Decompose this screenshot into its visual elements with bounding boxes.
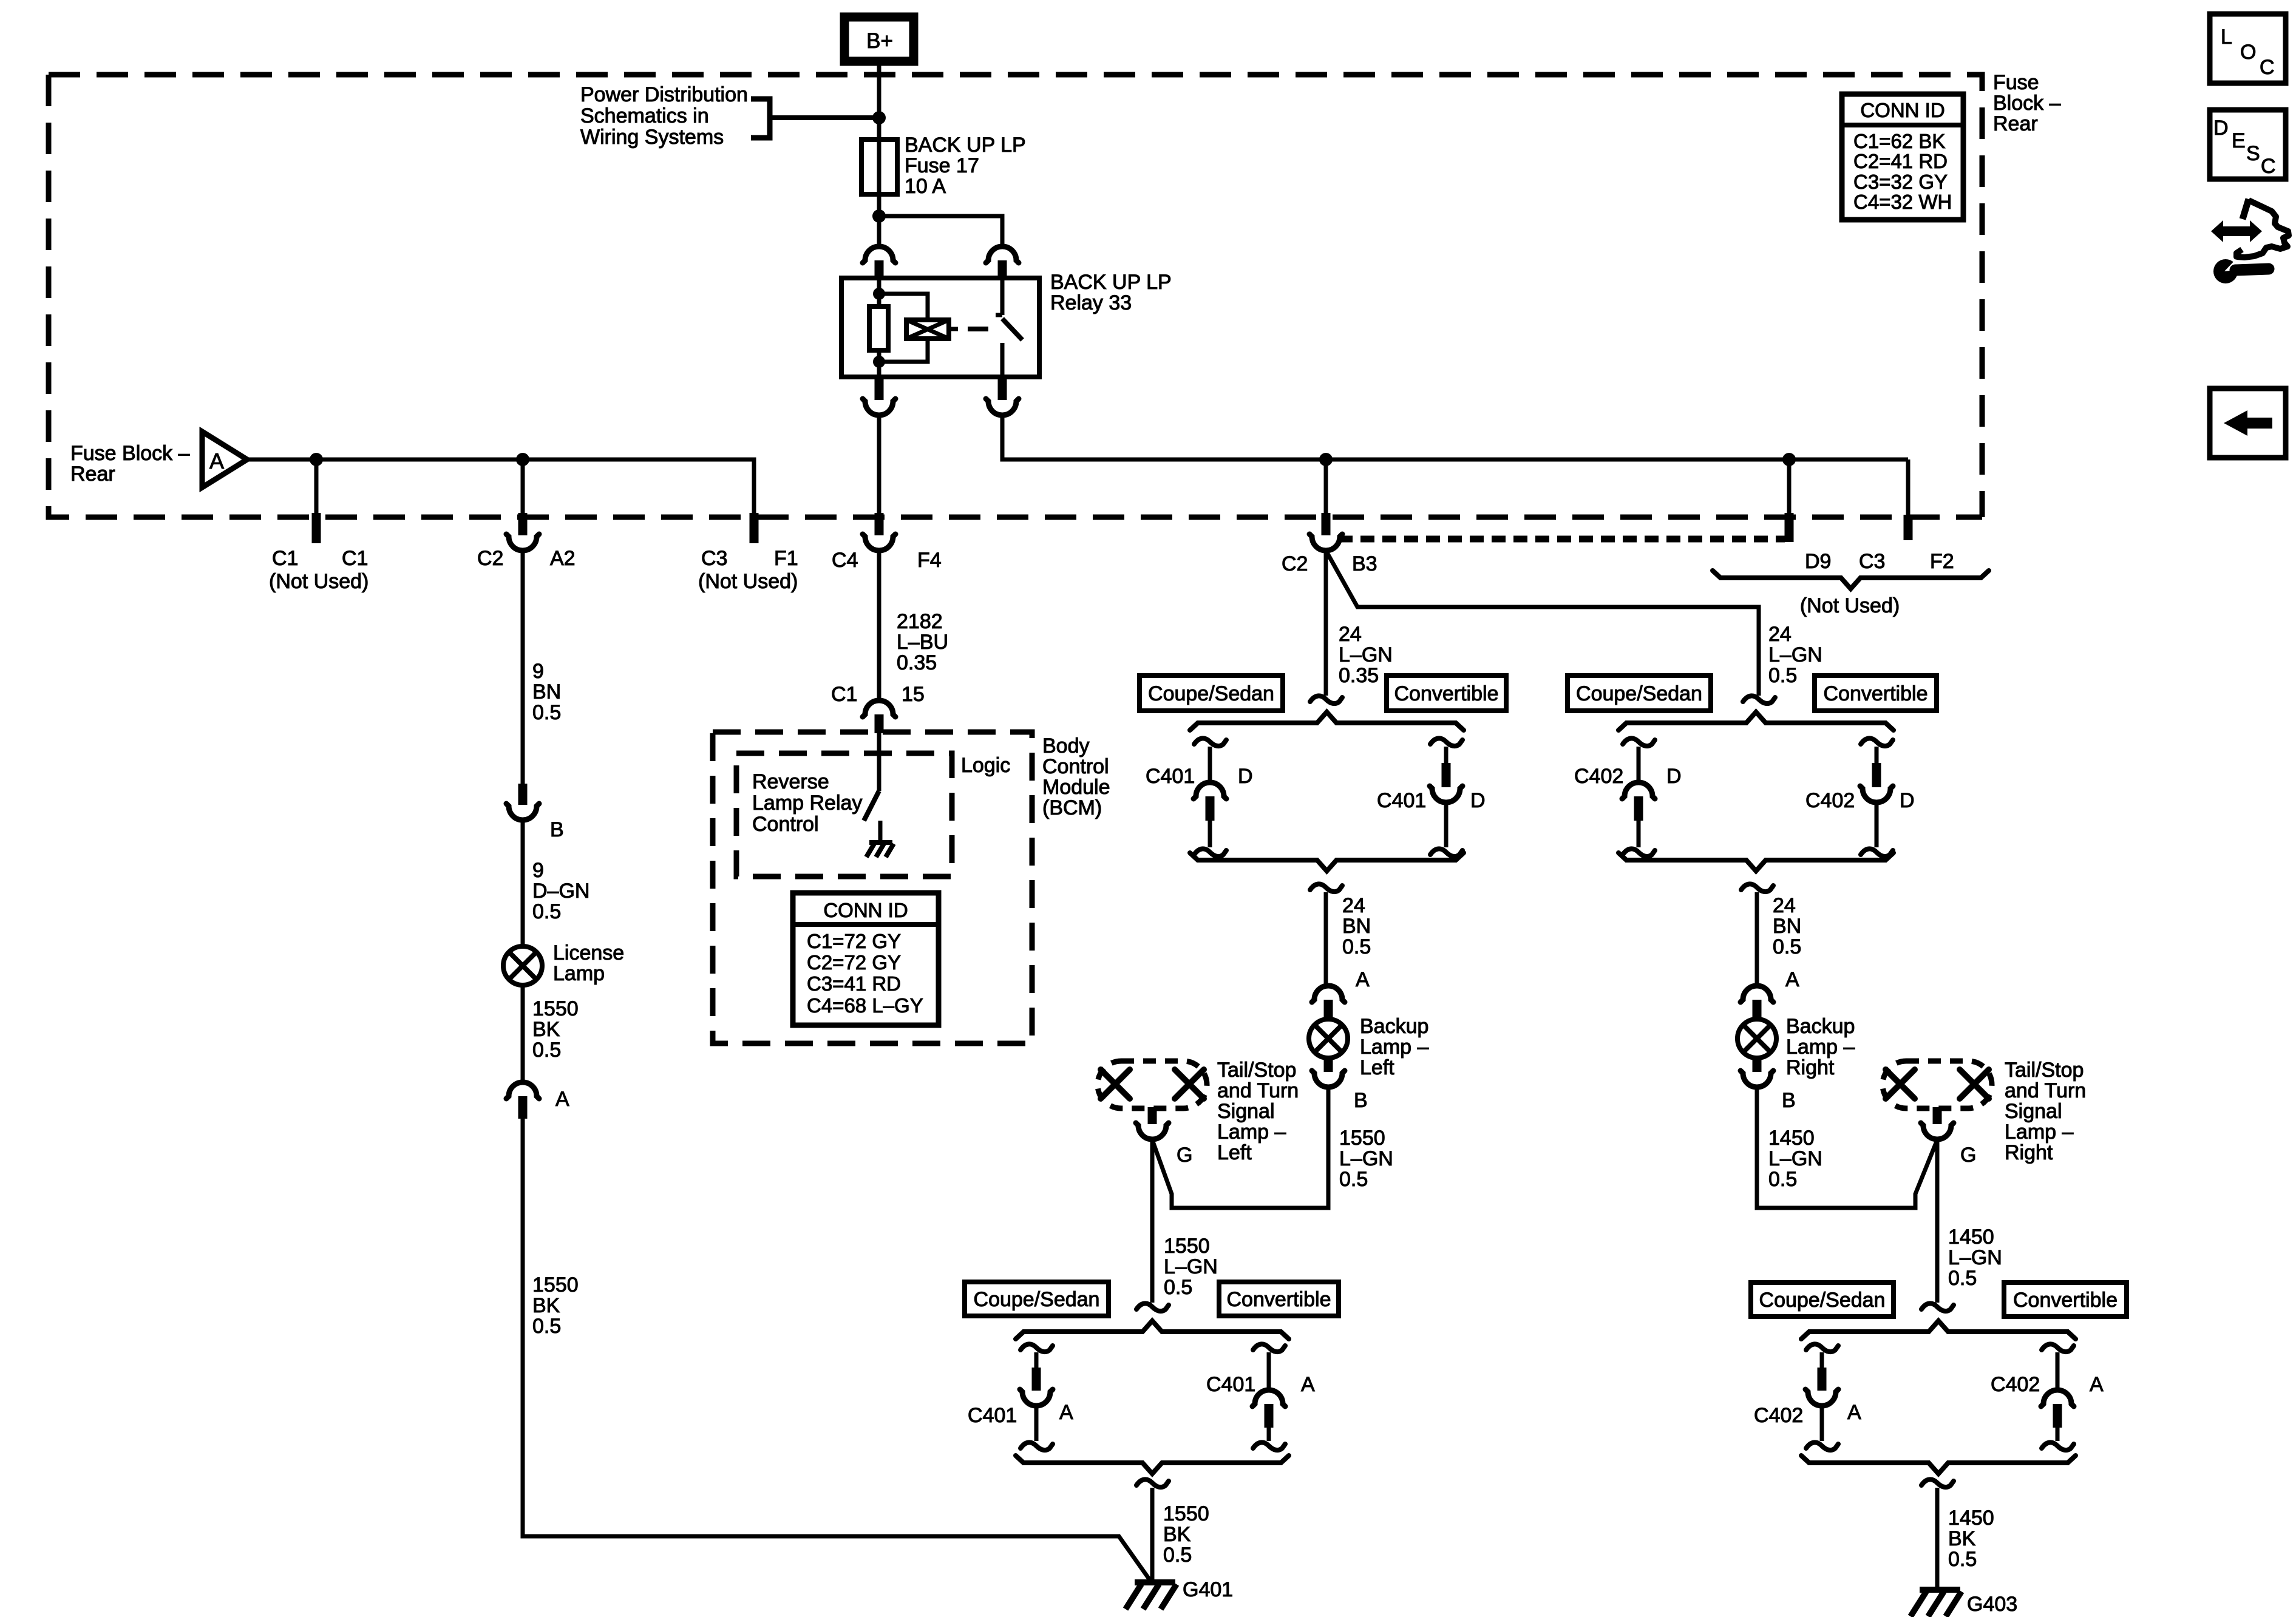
BCM logic ground	[866, 842, 894, 857]
wire license lamp down (ckt 1550 BK)	[521, 985, 525, 1082]
diagnostic icon harness outline	[2237, 199, 2289, 257]
svg-text:C2=72 GY: C2=72 GY	[807, 951, 901, 974]
svg-text:License: License	[553, 941, 624, 964]
svg-text:CONN ID: CONN ID	[1860, 99, 1944, 121]
svg-text:0.5: 0.5	[532, 1315, 561, 1338]
svg-text:B: B	[1354, 1089, 1368, 1112]
wire to license lamp (ckt 9 D-GN)	[521, 819, 525, 946]
svg-text:O: O	[2240, 41, 2256, 64]
svg-text:Lamp –: Lamp –	[1217, 1120, 1286, 1144]
connector C402 A convertible chain row2	[2041, 1344, 2074, 1450]
wire relay 85 down to C4 pin	[877, 415, 881, 515]
svg-text:C3=32 GY: C3=32 GY	[1853, 171, 1948, 193]
label Tail/Stop and Turn Signal Lamp - Left	[1217, 1059, 1299, 1164]
label Reverse Lamp Relay Control	[752, 770, 862, 836]
wire branch to relay coil pin	[879, 216, 1002, 246]
svg-text:Convertible: Convertible	[1824, 682, 1928, 705]
labels C402 A right chain row2	[1991, 1373, 2104, 1396]
svg-text:C1=62 BK: C1=62 BK	[1853, 130, 1945, 152]
label B backup left	[1354, 1089, 1368, 1112]
svg-text:D9: D9	[1805, 550, 1831, 573]
svg-text:BACK UP LP: BACK UP LP	[1050, 271, 1172, 294]
label 9 D-GN 0.5	[532, 859, 589, 923]
connector G tail lamp right	[1921, 1107, 1954, 1139]
svg-text:Block –: Block –	[1993, 92, 2061, 115]
svg-text:0.5: 0.5	[1768, 1168, 1797, 1191]
svg-text:BACK UP LP: BACK UP LP	[905, 134, 1026, 157]
label 1450 BK 0.5 ground right	[1948, 1507, 1994, 1571]
ground G403	[1911, 1590, 1961, 1616]
svg-text:C402: C402	[1805, 789, 1855, 812]
label 1550 BK 0.5 upper	[532, 997, 579, 1062]
svg-text:G: G	[1960, 1144, 1976, 1167]
pin C3/F1 (not used)	[750, 513, 759, 543]
svg-text:A2: A2	[550, 547, 576, 570]
breakaway squiggle above row2 left group	[1136, 1303, 1169, 1311]
brace top row2 right group	[1801, 1321, 2076, 1339]
box Convertible row2 left	[1219, 1282, 1339, 1316]
svg-text:C2: C2	[477, 547, 503, 570]
svg-text:C2=41 RD: C2=41 RD	[1853, 150, 1948, 172]
label 9 BN 0.5	[532, 660, 561, 724]
license lamp	[503, 946, 542, 985]
svg-text:15: 15	[902, 683, 925, 706]
triangle source A	[202, 432, 247, 487]
connector A backup lamp left	[1312, 986, 1345, 1020]
svg-text:B3: B3	[1352, 552, 1377, 575]
svg-text:BK: BK	[1163, 1523, 1191, 1546]
svg-text:Left: Left	[1360, 1056, 1394, 1079]
svg-text:Right: Right	[2005, 1141, 2053, 1164]
DESC navigation box	[2210, 110, 2286, 179]
svg-text:D: D	[1238, 765, 1253, 788]
svg-text:Power Distribution: Power Distribution	[580, 83, 748, 106]
wire tail right G down (ckt 1450 L-GN)	[1935, 1139, 1940, 1303]
svg-text:F2: F2	[1930, 550, 1954, 573]
svg-text:C402: C402	[1574, 765, 1623, 788]
brace top row1 right group	[1618, 712, 1894, 730]
svg-text:Tail/Stop: Tail/Stop	[1217, 1059, 1296, 1082]
relay pin 86 connector (dome and pin)	[863, 246, 895, 278]
relay coil resistor branch	[869, 278, 888, 377]
svg-text:F4: F4	[917, 549, 942, 572]
svg-text:C401: C401	[1206, 1373, 1255, 1396]
pin C4/F4 connector	[863, 513, 895, 551]
box Coupe/Sedan row1 right	[1567, 676, 1711, 711]
svg-text:9: 9	[532, 859, 544, 882]
svg-text:Logic: Logic	[961, 754, 1010, 777]
svg-text:D: D	[1470, 789, 1486, 812]
wire C2/B3 diagonal feed to right group (ckt 24 L-GN 0.5)	[1326, 551, 1759, 696]
svg-text:Signal: Signal	[1217, 1100, 1275, 1123]
connector C401 D coupe chain	[1194, 738, 1226, 856]
svg-text:0.5: 0.5	[1768, 664, 1797, 687]
dotted boundary segment C2 to D9	[1339, 536, 1785, 543]
pin F2 (not used)	[1904, 515, 1913, 540]
breakaway squiggle below row2 right group	[1921, 1479, 1954, 1487]
junction dot bus at C1	[310, 453, 323, 466]
label Backup Lamp - Left	[1360, 1015, 1428, 1079]
svg-text:BK: BK	[532, 1294, 560, 1317]
svg-text:Schematics in: Schematics in	[580, 104, 709, 127]
label BACK UP LP Relay 33	[1050, 271, 1172, 314]
connector C402 D coupe chain	[1622, 738, 1655, 856]
label Power Distribution Schematics in Wiring Systems	[580, 83, 748, 149]
label A backup right	[1785, 968, 1799, 991]
relay pin 85 connector (pin and cup)	[863, 377, 895, 415]
svg-text:C3: C3	[1859, 550, 1885, 573]
box Coupe/Sedan row2 left	[965, 1282, 1109, 1316]
svg-text:C1: C1	[272, 547, 298, 570]
svg-text:A: A	[1847, 1401, 1861, 1424]
wire to backup lamp right (ckt 24 BN)	[1755, 892, 1759, 986]
svg-text:Lamp Relay: Lamp Relay	[752, 792, 862, 815]
svg-text:Fuse: Fuse	[1993, 71, 2039, 94]
svg-text:S: S	[2246, 142, 2260, 165]
label Fuse Block - Rear (top right)	[1993, 71, 2061, 135]
svg-text:Left: Left	[1217, 1141, 1252, 1164]
B+ battery feed box	[844, 17, 914, 61]
svg-text:Coupe/Sedan: Coupe/Sedan	[974, 1288, 1100, 1311]
breakaway squiggle above left group	[1310, 696, 1342, 703]
svg-text:(Not Used): (Not Used)	[269, 570, 369, 593]
svg-text:G401: G401	[1183, 1578, 1233, 1601]
brace bottom row1 left group	[1190, 853, 1464, 871]
svg-text:24: 24	[1339, 623, 1362, 646]
svg-text:Lamp: Lamp	[553, 962, 605, 985]
svg-text:Lamp –: Lamp –	[1360, 1036, 1428, 1059]
junction dot at power distribution tap	[872, 111, 886, 124]
label 24 L-GN 0.5 right feed	[1768, 623, 1822, 687]
svg-text:and Turn: and Turn	[2005, 1079, 2086, 1102]
label License Lamp	[553, 941, 624, 985]
svg-text:Wiring Systems: Wiring Systems	[580, 126, 724, 149]
labels C402 A left chain row2	[1754, 1401, 1861, 1427]
svg-text:B+: B+	[866, 29, 893, 53]
fuse block - rear dashed boundary box	[49, 75, 1982, 517]
svg-text:A: A	[1301, 1373, 1315, 1396]
label 24 BN 0.5 left	[1342, 894, 1371, 958]
pin D9 (not used)	[1785, 513, 1794, 542]
box Convertible row1 right	[1815, 676, 1937, 711]
svg-text:2182: 2182	[897, 610, 943, 633]
label BACK UP LP Fuse 17 10 A	[905, 134, 1026, 198]
wire row2 left to G401 (ckt 1550 BK)	[1150, 1488, 1155, 1581]
svg-text:BK: BK	[1948, 1527, 1976, 1550]
svg-text:BN: BN	[1773, 915, 1801, 938]
backup lamp left	[1309, 1019, 1348, 1058]
svg-text:BN: BN	[1342, 915, 1371, 938]
wire bus down to C1 pin	[314, 459, 319, 515]
svg-text:Relay 33: Relay 33	[1050, 291, 1132, 314]
box Convertible row2 right	[2004, 1283, 2127, 1317]
svg-text:D: D	[1900, 789, 1915, 812]
labels C401 D right chain	[1377, 789, 1486, 812]
svg-text:L–BU: L–BU	[897, 631, 948, 654]
svg-text:0.5: 0.5	[1948, 1548, 1977, 1571]
relay switch contact	[996, 278, 1022, 377]
svg-text:0.35: 0.35	[1339, 664, 1379, 687]
label 24 L-GN 0.35	[1339, 623, 1393, 687]
callout bracket to power distribution	[751, 99, 877, 138]
svg-text:L–GN: L–GN	[1768, 1147, 1822, 1170]
pin C2/B3 connector	[1309, 513, 1342, 551]
svg-text:Control: Control	[1042, 755, 1109, 778]
svg-text:0.5: 0.5	[1163, 1544, 1192, 1567]
svg-text:Module: Module	[1042, 776, 1110, 799]
svg-text:1450: 1450	[1768, 1127, 1815, 1150]
relay K33 BACK UP LP box	[841, 278, 1039, 377]
label 1450 L-GN 0.5 row2 feed	[1948, 1225, 2002, 1290]
breakaway squiggle above right group	[1743, 696, 1775, 703]
brace bottom row2 right group	[1801, 1456, 2076, 1474]
svg-text:Lamp –: Lamp –	[1786, 1036, 1855, 1059]
wire bus down to D9 pin	[1787, 459, 1792, 521]
wire junction down to relay left pin	[877, 216, 881, 246]
BCM driver switch	[864, 733, 880, 842]
CONN ID table fuse block rear	[1842, 94, 1963, 220]
svg-text:D: D	[2213, 117, 2229, 140]
svg-text:L–GN: L–GN	[1339, 1147, 1393, 1170]
pin C1 (not used)	[312, 513, 321, 543]
svg-text:Fuse 17: Fuse 17	[905, 154, 979, 177]
svg-text:24: 24	[1342, 894, 1365, 917]
label G403	[1967, 1593, 2017, 1616]
svg-text:Backup: Backup	[1360, 1015, 1428, 1038]
svg-text:1550: 1550	[532, 1273, 579, 1297]
svg-text:C1: C1	[831, 683, 857, 706]
svg-text:C4=32 WH: C4=32 WH	[1853, 191, 1952, 213]
svg-text:C3=41 RD: C3=41 RD	[807, 972, 901, 995]
labels D9 C3 F2	[1805, 550, 1954, 573]
svg-text:C2: C2	[1282, 552, 1308, 575]
labels C401 D left chain	[1146, 765, 1253, 788]
svg-text:Convertible: Convertible	[1394, 682, 1499, 705]
svg-text:0.5: 0.5	[1342, 935, 1371, 958]
wire to backup lamp left (ckt 24 BN)	[1324, 892, 1328, 986]
backup lamp right	[1737, 1019, 1776, 1058]
label 24 BN 0.5 right	[1773, 894, 1801, 958]
connector B backup lamp right	[1741, 1057, 1773, 1087]
wire relay 87 to output bus	[1002, 415, 1908, 459]
junction dot bus at D9	[1782, 453, 1796, 466]
tail/stop and turn signal lamp left	[1098, 1061, 1207, 1108]
svg-text:C1=72 GY: C1=72 GY	[807, 930, 901, 952]
connector C402 A coupe chain row2	[1805, 1344, 1838, 1450]
svg-text:A: A	[555, 1088, 569, 1111]
svg-text:L–GN: L–GN	[1768, 643, 1822, 666]
svg-text:1550: 1550	[1339, 1127, 1385, 1150]
connector G tail lamp left	[1136, 1107, 1169, 1139]
labels C401 A right chain row2	[1206, 1373, 1315, 1396]
wire B+ down to fuse	[877, 61, 881, 141]
diagnostic icon wrench	[2213, 259, 2269, 283]
svg-text:D–GN: D–GN	[532, 880, 589, 903]
label 1550 L-GN 0.5 left lamp	[1339, 1127, 1393, 1191]
svg-text:L: L	[2221, 25, 2232, 49]
svg-text:0.35: 0.35	[897, 651, 937, 674]
ground G401	[1126, 1582, 1177, 1609]
logic dashed box reverse lamp relay control	[736, 753, 952, 876]
junction dot bus at C2/B3	[1319, 453, 1333, 466]
long ground wire 1550 BK to G401	[523, 1119, 1150, 1580]
breakaway squiggle below row1 right group	[1741, 884, 1773, 892]
svg-text:24: 24	[1768, 623, 1792, 646]
tail/stop and turn signal lamp right	[1883, 1061, 1992, 1108]
wire backup left B down (ckt 1550 L-GN)	[1152, 1086, 1328, 1208]
brace not used pins	[1713, 571, 1989, 589]
labels C401 A left chain row2	[968, 1401, 1073, 1427]
label 1550 L-GN 0.5 row2 feed	[1164, 1235, 1218, 1299]
junction dot below fuse	[872, 209, 886, 223]
svg-text:BN: BN	[532, 680, 561, 703]
wire bus down to C2/B3 pin	[1324, 459, 1328, 515]
label 1450 L-GN 0.5 right lamp	[1768, 1127, 1822, 1191]
svg-text:Tail/Stop: Tail/Stop	[2005, 1059, 2084, 1082]
svg-text:(BCM): (BCM)	[1042, 796, 1102, 819]
back arrow navigation box	[2210, 388, 2286, 458]
connector C402 D convertible chain	[1860, 738, 1893, 856]
brace bottom row2 left group	[1016, 1456, 1289, 1474]
breakaway squiggle below row1 left group	[1310, 884, 1342, 892]
bus wire from A to C3 pin	[247, 459, 754, 515]
breakaway squiggle below row2 left group	[1136, 1479, 1169, 1487]
label G left	[1177, 1144, 1192, 1167]
connector C401 A convertible chain row2	[1252, 1344, 1285, 1450]
svg-text:C: C	[2260, 56, 2275, 79]
relay pin 30 connector (dome and pin)	[986, 246, 1019, 278]
svg-text:Coupe/Sedan: Coupe/Sedan	[1759, 1289, 1886, 1312]
svg-text:Backup: Backup	[1786, 1015, 1855, 1038]
svg-text:24: 24	[1773, 894, 1796, 917]
BCM dashed box	[713, 732, 1032, 1043]
inline connector B (pin and cup)	[506, 784, 539, 820]
svg-text:and Turn: and Turn	[1217, 1079, 1299, 1102]
svg-text:(Not Used): (Not Used)	[698, 570, 798, 593]
svg-text:Convertible: Convertible	[1227, 1288, 1331, 1311]
label B backup right	[1782, 1089, 1796, 1112]
connector C1 pin 15 (dome and pin)	[863, 700, 895, 733]
relay pin 87 connector (pin and cup)	[986, 377, 1019, 415]
svg-text:Rear: Rear	[70, 463, 115, 486]
svg-text:Rear: Rear	[1993, 112, 2038, 135]
svg-text:BK: BK	[532, 1018, 560, 1041]
label G right	[1960, 1144, 1976, 1167]
svg-text:Lamp –: Lamp –	[2005, 1120, 2073, 1144]
wire tail left G down (ckt 1550 L-GN)	[1150, 1139, 1155, 1303]
label Logic	[961, 754, 1010, 777]
svg-text:E: E	[2232, 129, 2246, 152]
labels C402 D right chain	[1805, 789, 1915, 812]
svg-text:10 A: 10 A	[905, 175, 946, 198]
svg-text:Coupe/Sedan: Coupe/Sedan	[1148, 682, 1274, 705]
breakaway squiggle above row2 right group	[1921, 1303, 1954, 1311]
svg-text:Reverse: Reverse	[752, 770, 829, 793]
svg-text:A: A	[1059, 1401, 1073, 1424]
relay actuation dashed link	[968, 327, 988, 331]
svg-text:A: A	[1785, 968, 1799, 991]
svg-text:Control: Control	[752, 813, 819, 836]
svg-text:1450: 1450	[1948, 1225, 1994, 1249]
wire row2 right to G403 (ckt 1450 BK)	[1935, 1488, 1940, 1588]
svg-text:Fuse Block –: Fuse Block –	[70, 442, 190, 465]
inline connector A (dome and pin)	[506, 1082, 539, 1119]
svg-text:B: B	[550, 818, 564, 841]
labels C3 F1 (Not Used)	[698, 547, 798, 593]
wire C2 pin down (ckt 9 BN)	[521, 549, 525, 784]
svg-text:0.5: 0.5	[1948, 1267, 1977, 1290]
svg-text:C4: C4	[832, 549, 858, 572]
svg-text:1550: 1550	[1164, 1235, 1210, 1258]
junction dot bus at C2	[516, 453, 529, 466]
svg-text:1550: 1550	[532, 997, 579, 1020]
svg-text:0.5: 0.5	[1773, 935, 1801, 958]
connector B backup lamp left	[1312, 1057, 1345, 1087]
wire fuse to relay junction	[877, 194, 881, 216]
wire C2/B3 down to left group (ckt 24 L-GN 0.35)	[1324, 549, 1328, 696]
pin C2/A2 connector	[506, 513, 539, 551]
svg-text:A: A	[1356, 968, 1370, 991]
svg-text:G: G	[1177, 1144, 1192, 1167]
label Fuse Block - Rear (left)	[70, 442, 190, 486]
labels C402 D left chain	[1574, 765, 1682, 788]
labels C4 F4	[832, 549, 942, 572]
label Body Control Module (BCM)	[1042, 734, 1110, 819]
label (Not Used) right	[1800, 594, 1900, 617]
svg-text:1450: 1450	[1948, 1507, 1994, 1530]
labels C2 B3	[1282, 552, 1377, 575]
svg-text:C: C	[2261, 155, 2276, 178]
box Coupe/Sedan row2 right	[1751, 1283, 1894, 1317]
svg-text:0.5: 0.5	[1164, 1276, 1192, 1299]
label Tail/Stop and Turn Signal Lamp - Right	[2005, 1059, 2086, 1164]
labels C2 A2	[477, 547, 576, 570]
brace top row2 left group	[1016, 1321, 1289, 1339]
diagnostic icon double arrow	[2211, 220, 2262, 242]
label 1550 BK 0.5 ground left	[1163, 1502, 1209, 1567]
svg-text:9: 9	[532, 660, 544, 683]
label 1550 BK 0.5 lower	[532, 1273, 579, 1338]
connector C401 D convertible chain	[1430, 738, 1462, 856]
svg-text:G403: G403	[1967, 1593, 2017, 1616]
box Convertible row1 left	[1387, 676, 1506, 711]
svg-text:(Not Used): (Not Used)	[1800, 594, 1900, 617]
label Backup Lamp - Right	[1786, 1015, 1855, 1079]
svg-text:C1: C1	[342, 547, 368, 570]
svg-text:F1: F1	[774, 547, 798, 570]
connector C401 A coupe chain row2	[1020, 1344, 1053, 1450]
CONN ID table BCM	[793, 893, 939, 1025]
svg-text:0.5: 0.5	[532, 900, 561, 923]
svg-text:0.5: 0.5	[1339, 1168, 1368, 1191]
svg-text:L–GN: L–GN	[1164, 1255, 1218, 1278]
labels C1 15	[831, 683, 925, 706]
svg-text:C402: C402	[1754, 1404, 1803, 1427]
svg-text:0.5: 0.5	[532, 701, 561, 724]
wire bus down to C2 pin	[521, 459, 525, 515]
svg-text:Coupe/Sedan: Coupe/Sedan	[1576, 682, 1702, 705]
svg-text:0.5: 0.5	[532, 1039, 561, 1062]
connector A backup lamp right	[1741, 986, 1773, 1020]
svg-text:Convertible: Convertible	[2013, 1289, 2118, 1312]
svg-text:C402: C402	[1991, 1373, 2040, 1396]
svg-text:C401: C401	[968, 1404, 1017, 1427]
svg-text:A: A	[2090, 1373, 2104, 1396]
svg-text:C4=68 L–GY: C4=68 L–GY	[807, 994, 923, 1017]
svg-text:CONN ID: CONN ID	[823, 899, 908, 921]
box Coupe/Sedan row1 left	[1140, 676, 1283, 711]
svg-text:D: D	[1666, 765, 1682, 788]
